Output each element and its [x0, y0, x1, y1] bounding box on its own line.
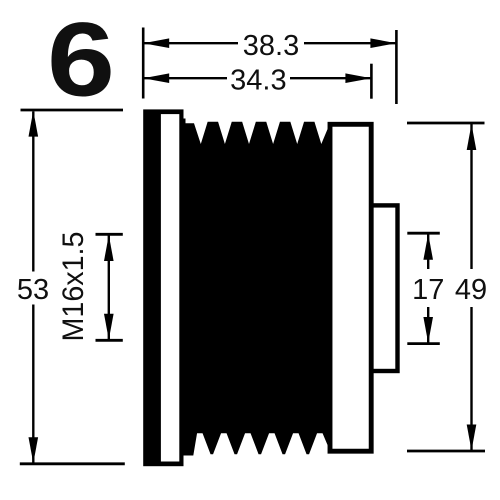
dimension 38.3 (overall width) — [143, 28, 396, 105]
thread dimension M16x1.5 (rotated label with arrows) — [57, 232, 123, 342]
dimension 17 (hub height) — [407, 233, 444, 343]
dimension 49 (housing height) — [407, 123, 487, 451]
hub boss (right small outlined rectangle) — [371, 205, 397, 371]
dimension 34.3 (body width) — [143, 64, 371, 99]
svg-text:53: 53 — [17, 274, 49, 306]
bearing housing (right large outlined rectangle) — [330, 124, 371, 451]
pulley ribbed body (black silhouette with 6 ribs) — [184, 119, 331, 456]
svg-text:34.3: 34.3 — [230, 65, 286, 97]
svg-text:49: 49 — [455, 274, 487, 306]
svg-text:6: 6 — [47, 2, 115, 119]
rib count label '6' — [47, 2, 115, 119]
svg-text:38.3: 38.3 — [243, 30, 299, 62]
svg-text:M16x1.5: M16x1.5 — [57, 232, 90, 342]
svg-text:17: 17 — [412, 274, 444, 306]
dimension 53 (overall diameter, left) — [17, 110, 125, 464]
flange washer (left black ring section) — [143, 109, 183, 466]
